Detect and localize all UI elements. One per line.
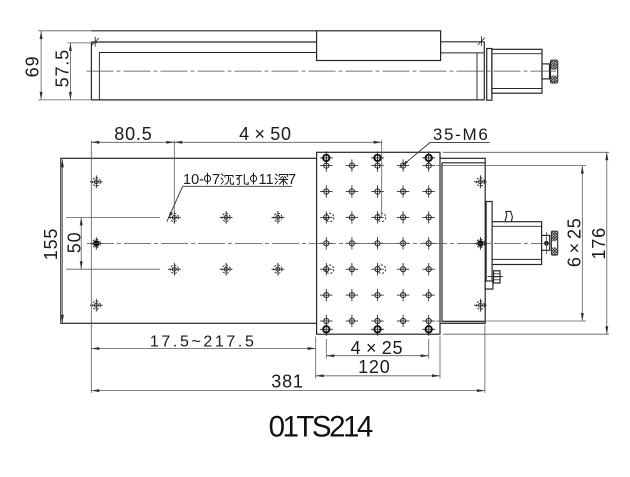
svg-text:80.5: 80.5 (114, 124, 152, 144)
svg-text:155: 155 (41, 228, 61, 260)
svg-text:7: 7 (288, 172, 296, 188)
svg-text:11: 11 (259, 172, 274, 188)
svg-text:69: 69 (23, 55, 43, 77)
svg-text:4×50: 4×50 (239, 124, 292, 144)
svg-text:01TS214: 01TS214 (269, 411, 373, 444)
svg-text:10-: 10- (183, 172, 204, 188)
svg-text:50: 50 (64, 232, 84, 254)
svg-text:120: 120 (358, 357, 390, 377)
svg-text:35-M6: 35-M6 (433, 125, 490, 144)
svg-text:7: 7 (212, 172, 220, 188)
svg-text:176: 176 (589, 227, 609, 259)
svg-text:57.5: 57.5 (52, 49, 72, 87)
svg-text:381: 381 (271, 371, 303, 391)
svg-text:17.5~217.5: 17.5~217.5 (150, 333, 257, 350)
svg-text:4×25: 4×25 (351, 338, 404, 358)
svg-text:6×25: 6×25 (564, 217, 584, 267)
